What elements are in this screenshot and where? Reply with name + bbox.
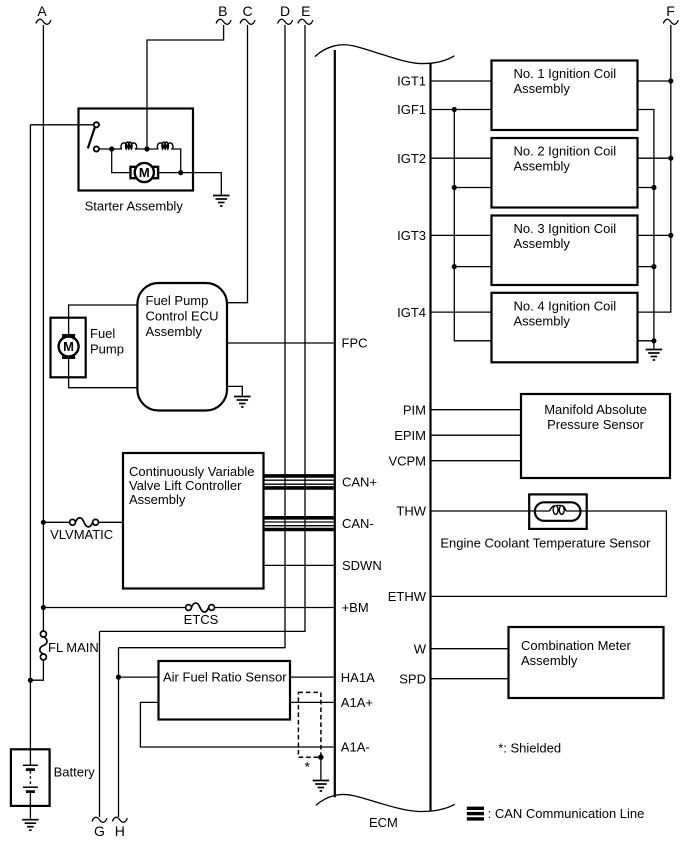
wire: connector G riser	[99, 631, 101, 817]
wire: IGT3 to No.3 coil	[432, 234, 492, 236]
wire: SDWN from CVVL box to ECM	[264, 564, 334, 566]
wire: IGF branch to No.3 coil	[454, 266, 491, 268]
starter motor armature circle	[135, 163, 154, 182]
wire: CAN+ pair lower	[264, 483, 334, 485]
combination meter label	[521, 638, 631, 668]
engine coolant temperature sensor outer box	[529, 494, 587, 529]
fusible link FL MAIN (element)	[40, 637, 47, 654]
starter switch lever	[88, 127, 95, 148]
wire: CAN- pair upper	[264, 521, 334, 523]
battery cells dashed link	[29, 771, 31, 786]
svg-text:IGT1: IGT1	[397, 74, 426, 89]
manifold absolute pressure sensor label	[544, 402, 647, 432]
connector break squiggle F	[663, 19, 678, 24]
ground: starter assembly	[213, 196, 230, 207]
starter assembly label	[85, 199, 184, 214]
wire: ETCS fuse to ECM +BM	[215, 607, 334, 609]
wire: connector B to starter coil junction	[147, 25, 224, 148]
wire: connector C to fuel pump control ECU	[228, 25, 248, 303]
svg-text:FL MAIN: FL MAIN	[48, 640, 99, 655]
battery box	[11, 749, 50, 806]
No. 4 ignition coil label	[514, 298, 617, 328]
solenoid coil L1	[121, 142, 137, 149]
solenoid coil L2	[157, 142, 173, 149]
wire: temp sensor return loop to ETHW	[432, 511, 667, 596]
wire: FPC from ECU to ECM	[228, 342, 334, 344]
node: ground bus at No.2	[651, 185, 656, 190]
svg-text:Engine Coolant Temperature Sen: Engine Coolant Temperature Sensor	[440, 536, 651, 551]
wire: battery positive riser to starter switch	[29, 125, 31, 750]
svg-text:No. 1 Ignition CoilAssembly: No. 1 Ignition CoilAssembly	[514, 66, 617, 96]
node: ground bus at No.3	[651, 264, 656, 269]
svg-text:Battery: Battery	[54, 765, 96, 780]
wire: connector H riser	[118, 648, 120, 817]
No. 1 ignition coil label	[514, 66, 617, 96]
svg-text:D: D	[280, 3, 290, 19]
ECM label	[369, 815, 398, 830]
ECM pin label FPC	[342, 336, 368, 351]
svg-text:IGF1: IGF1	[397, 102, 426, 117]
wire: A1A+ sensor to ECM	[290, 701, 334, 703]
ECM left boundary line	[334, 50, 336, 797]
connector letter D	[280, 3, 290, 19]
CVVL controller label	[129, 464, 255, 507]
node: IGF junction at No.3	[452, 264, 457, 269]
svg-text:+BM: +BM	[342, 600, 369, 615]
svg-text:W: W	[414, 641, 427, 656]
ground: shield drain	[313, 781, 330, 792]
fusible link FL MAIN (bottom terminal)	[40, 654, 46, 660]
No. 3 ignition coil label	[514, 221, 617, 251]
wire: connector D down and over to connector H	[119, 25, 286, 648]
combination meter assembly box	[509, 627, 664, 698]
svg-text:FuelPump: FuelPump	[90, 326, 124, 357]
connector break squiggle C	[240, 19, 255, 24]
connector letter E	[301, 3, 310, 19]
air fuel ratio sensor label	[163, 669, 287, 684]
wire: CAN+ pair upper	[264, 479, 334, 481]
connector letter C	[243, 3, 253, 19]
ground: ignition coils	[646, 350, 663, 361]
svg-text:A1A+: A1A+	[341, 695, 373, 710]
wire: FL MAIN to battery riser junction	[30, 660, 43, 680]
svg-text:E: E	[301, 3, 310, 19]
ECM pin label IGF1	[397, 102, 426, 117]
svg-text:M: M	[139, 165, 150, 180]
wire: IGF branch to No.2 coil	[454, 187, 491, 189]
node: F line at No.2	[668, 156, 673, 161]
battery plate (short thick bottom)	[26, 790, 35, 793]
fuse VLVMATIC (left terminal)	[70, 519, 76, 525]
svg-text:CAN+: CAN+	[342, 475, 377, 490]
fuel pump motor armature circle	[59, 337, 79, 357]
wire: between solenoid coils	[135, 148, 159, 150]
fuel pump control ECU assembly box	[137, 283, 227, 411]
svg-text:C: C	[243, 3, 253, 19]
node: battery riser junction	[28, 678, 33, 683]
wire: VLVMATIC fuse feed	[46, 521, 70, 523]
starter motor brush (right)	[153, 167, 158, 178]
fuel pump motor M marking	[63, 339, 74, 354]
svg-text:THW: THW	[396, 504, 426, 519]
fuel pump control ECU label	[146, 293, 219, 339]
starter switch terminal (top)	[94, 122, 99, 127]
svg-text:SPD: SPD	[399, 671, 426, 686]
starter motor M marking	[139, 165, 150, 180]
starter switch terminal (bottom)	[94, 146, 99, 151]
wire: No.1 coil +B to F line	[638, 80, 671, 82]
fuel pump motor brush (top)	[63, 335, 74, 339]
battery plate (short thick top)	[26, 768, 35, 771]
svg-text:A: A	[37, 3, 47, 19]
ECM pin label THW	[396, 504, 426, 519]
wire: coil to motor branch corner	[171, 149, 181, 173]
ECM pin label IGT3	[397, 228, 426, 243]
ECM pin label CAN+	[342, 475, 377, 490]
node: +BM tap on A feed	[41, 605, 46, 610]
ECM bottom break (wavy line)	[316, 794, 455, 811]
wire: No.2 coil +B to F line	[638, 157, 671, 159]
svg-text:PIM: PIM	[403, 402, 426, 417]
ECM top break (wavy line)	[315, 45, 455, 64]
wire: IGF bus down to No.4 coil	[454, 110, 491, 341]
connector letter F	[666, 3, 675, 19]
ECM pin label IGT2	[397, 151, 426, 166]
legend: CAN line symbol bars	[467, 807, 484, 821]
wire: CAN- pair lower	[264, 525, 334, 527]
svg-text:EPIM: EPIM	[394, 428, 426, 443]
wire: switch feed from battery riser	[30, 124, 94, 126]
legend: CAN communication line note	[488, 806, 645, 821]
connector break squiggle G	[92, 817, 107, 822]
svg-text:CAN-: CAN-	[342, 516, 374, 531]
svg-text:*: *	[305, 759, 311, 775]
svg-text:Fuel PumpControl ECUAssembly: Fuel PumpControl ECUAssembly	[146, 293, 219, 339]
CAN- thick bar (upper)	[264, 516, 334, 520]
CAN+ thick bar (lower)	[264, 486, 334, 490]
wire: fuel pump top to ECU	[69, 305, 138, 335]
connector letter H	[115, 823, 125, 839]
svg-text:IGT2: IGT2	[397, 151, 426, 166]
No. 1 ignition coil assembly box	[492, 61, 638, 131]
battery plate (long top)	[23, 764, 38, 766]
battery label	[54, 765, 96, 780]
ECM pin label PIM	[403, 402, 426, 417]
node: IGF junction at No.1	[452, 107, 457, 112]
fuse label ETCS	[184, 612, 219, 627]
wire: SPD to combination meter	[432, 678, 509, 680]
node: F line at No.3	[668, 233, 673, 238]
ECM pin label W	[414, 641, 427, 656]
fuel pump label	[90, 326, 124, 357]
fuel pump box	[51, 318, 86, 378]
starter motor brush (left)	[131, 167, 136, 178]
note: shielded	[498, 741, 561, 756]
manifold absolute pressure sensor box	[521, 394, 670, 478]
ECM pin label A1A-	[341, 740, 370, 755]
fuel pump motor brush (bottom)	[63, 354, 74, 358]
wire: +BM feed to ETCS fuse	[46, 607, 186, 609]
svg-text:A1A-: A1A-	[341, 740, 370, 755]
wire: battery internal top lead	[29, 749, 31, 765]
No. 2 ignition coil assembly box	[492, 138, 638, 208]
wire: IGF1 to No.1 coil	[432, 109, 492, 111]
wire: IGT4 to No.4 coil	[432, 311, 492, 313]
node: HA1A tap on connector H riser	[116, 675, 121, 680]
connector break squiggle A	[36, 19, 51, 24]
svg-text:Manifold AbsolutePressure Sens: Manifold AbsolutePressure Sensor	[544, 402, 647, 432]
ECM right boundary line	[429, 63, 431, 811]
wire: IGT2 to No.2 coil	[432, 157, 492, 159]
shield outline (dashed) around A1A wires	[298, 692, 321, 757]
svg-text:: CAN Communication Line: : CAN Communication Line	[488, 806, 645, 821]
svg-text:Starter Assembly: Starter Assembly	[85, 199, 184, 214]
ECM pin label IGT1	[397, 74, 426, 89]
wire: motor right side to ground run	[159, 173, 221, 195]
node: shield drain junction	[318, 755, 323, 760]
air fuel ratio sensor box	[159, 661, 291, 720]
battery plate (long bottom)	[23, 786, 38, 788]
node: VLVMATIC tap on A feed	[41, 520, 46, 525]
No. 2 ignition coil label	[514, 144, 617, 174]
fuse VLVMATIC (right terminal)	[93, 519, 99, 525]
svg-text:No. 3 Ignition CoilAssembly: No. 3 Ignition CoilAssembly	[514, 221, 617, 251]
wire: No.3 coil +B to F line	[638, 234, 671, 236]
svg-text:VLVMATIC: VLVMATIC	[50, 527, 113, 542]
ECM pin label IGT4	[397, 305, 426, 320]
ECM pin label ETHW	[388, 589, 427, 604]
svg-text:VCPM: VCPM	[388, 453, 426, 468]
starter assembly box	[79, 109, 194, 191]
ECM pin label EPIM	[394, 428, 426, 443]
wire: VCPM to MAP sensor	[432, 460, 522, 462]
svg-text:B: B	[218, 3, 227, 19]
ECM pin label HA1A	[341, 670, 375, 685]
wire: fuse to CVVL box	[99, 521, 124, 523]
svg-text:F: F	[666, 3, 675, 19]
wire: switch to solenoid coil	[99, 148, 122, 150]
node: solenoid pull-in junction	[109, 146, 114, 151]
wire: HA1A sensor to ECM	[290, 676, 334, 678]
svg-text:M: M	[63, 339, 74, 354]
fuse ETCS (right terminal)	[209, 605, 215, 611]
svg-text:IGT4: IGT4	[397, 305, 426, 320]
wire: HA1A from H riser to sensor	[119, 676, 159, 678]
wire: ECU ground lead	[228, 386, 242, 395]
ECM pin label CAN-	[342, 516, 374, 531]
fuse VLVMATIC (element)	[75, 518, 92, 527]
wire: pull-in junction down to motor	[112, 149, 130, 173]
node: F line at No.1	[668, 78, 673, 83]
wire: No.2 coil to ground bus	[638, 187, 654, 189]
connector break squiggle B	[216, 19, 231, 24]
fuse ETCS (element)	[191, 603, 208, 612]
ECM pin label A1A+	[341, 695, 373, 710]
wire: fuel pump bottom to ECU	[69, 358, 138, 388]
ECM pin label SPD	[399, 671, 426, 686]
CAN- thick bar (lower)	[264, 528, 334, 532]
ground: battery	[22, 820, 39, 831]
wire: No.4 coil to ground bus	[638, 340, 654, 342]
wire: coil ground bus from No.1 down	[638, 110, 654, 349]
fusible link FL MAIN (top terminal)	[40, 631, 46, 637]
svg-text:IGT3: IGT3	[397, 228, 426, 243]
svg-text:G: G	[94, 823, 105, 839]
svg-text:*: Shielded: *: Shielded	[498, 741, 561, 756]
node: motor to ground junction	[178, 170, 183, 175]
svg-text:HA1A: HA1A	[341, 670, 375, 685]
wire: shield drain to ground	[320, 757, 322, 779]
fusible link label FL MAIN	[48, 640, 99, 655]
No. 4 ignition coil assembly box	[492, 293, 638, 363]
connector letter A	[37, 3, 47, 19]
ECM pin label VCPM	[388, 453, 426, 468]
wire: PIM to MAP sensor	[432, 409, 522, 411]
svg-text:SDWN: SDWN	[342, 558, 382, 573]
ECM pin label SDWN	[342, 558, 382, 573]
svg-text:ECM: ECM	[369, 815, 398, 830]
wire: connector F line down right side	[639, 25, 671, 312]
connector letter G	[94, 823, 105, 839]
wire: battery negative to ground	[29, 792, 31, 819]
connector break squiggle E	[298, 19, 313, 24]
svg-text:H: H	[115, 823, 125, 839]
svg-text:Continuously VariableValve Lif: Continuously VariableValve Lift Controll…	[129, 464, 255, 507]
svg-text:Combination MeterAssembly: Combination MeterAssembly	[521, 638, 631, 668]
svg-text:ETHW: ETHW	[388, 589, 427, 604]
continuously variable valve lift controller assembly box	[123, 453, 264, 589]
wire: connector A feed (battery via FL MAIN up to connector A)	[42, 25, 44, 631]
engine coolant temperature sensor stadium body	[535, 502, 581, 521]
svg-text:Air Fuel Ratio Sensor: Air Fuel Ratio Sensor	[163, 669, 287, 684]
wire: IGT1 to No.1 coil	[432, 80, 492, 82]
CAN+ thick bar (upper)	[264, 474, 334, 478]
fuse label VLVMATIC	[50, 527, 113, 542]
svg-text:ETCS: ETCS	[184, 612, 219, 627]
engine coolant temperature sensor label	[440, 536, 651, 551]
node: coil junction to connector B	[144, 146, 149, 151]
wire: THW to coolant temp sensor	[432, 510, 550, 512]
wire: connector E down and over to connector G	[100, 25, 306, 631]
wire: W to combination meter	[432, 648, 509, 650]
svg-text:No. 4 Ignition CoilAssembly: No. 4 Ignition CoilAssembly	[514, 298, 617, 328]
ground: fuel pump control ECU	[234, 397, 251, 408]
connector break squiggle H	[112, 817, 127, 822]
ECM pin label +BM	[342, 600, 369, 615]
svg-text:FPC: FPC	[342, 336, 368, 351]
node: IGF junction at No.2	[452, 185, 457, 190]
wire: No.3 coil to ground bus	[638, 266, 654, 268]
thermistor element coil	[550, 505, 567, 514]
wire: A1A- sensor loop to ECM	[140, 702, 333, 747]
connector break squiggle D	[278, 19, 293, 24]
No. 3 ignition coil assembly box	[492, 216, 638, 286]
wire: EPIM to MAP sensor	[432, 434, 522, 436]
node: ground bus at No.4	[651, 338, 656, 343]
shield asterisk marker	[305, 759, 311, 775]
fuse ETCS (left terminal)	[186, 605, 192, 611]
svg-text:No. 2 Ignition CoilAssembly: No. 2 Ignition CoilAssembly	[514, 144, 617, 174]
connector letter B	[218, 3, 227, 19]
